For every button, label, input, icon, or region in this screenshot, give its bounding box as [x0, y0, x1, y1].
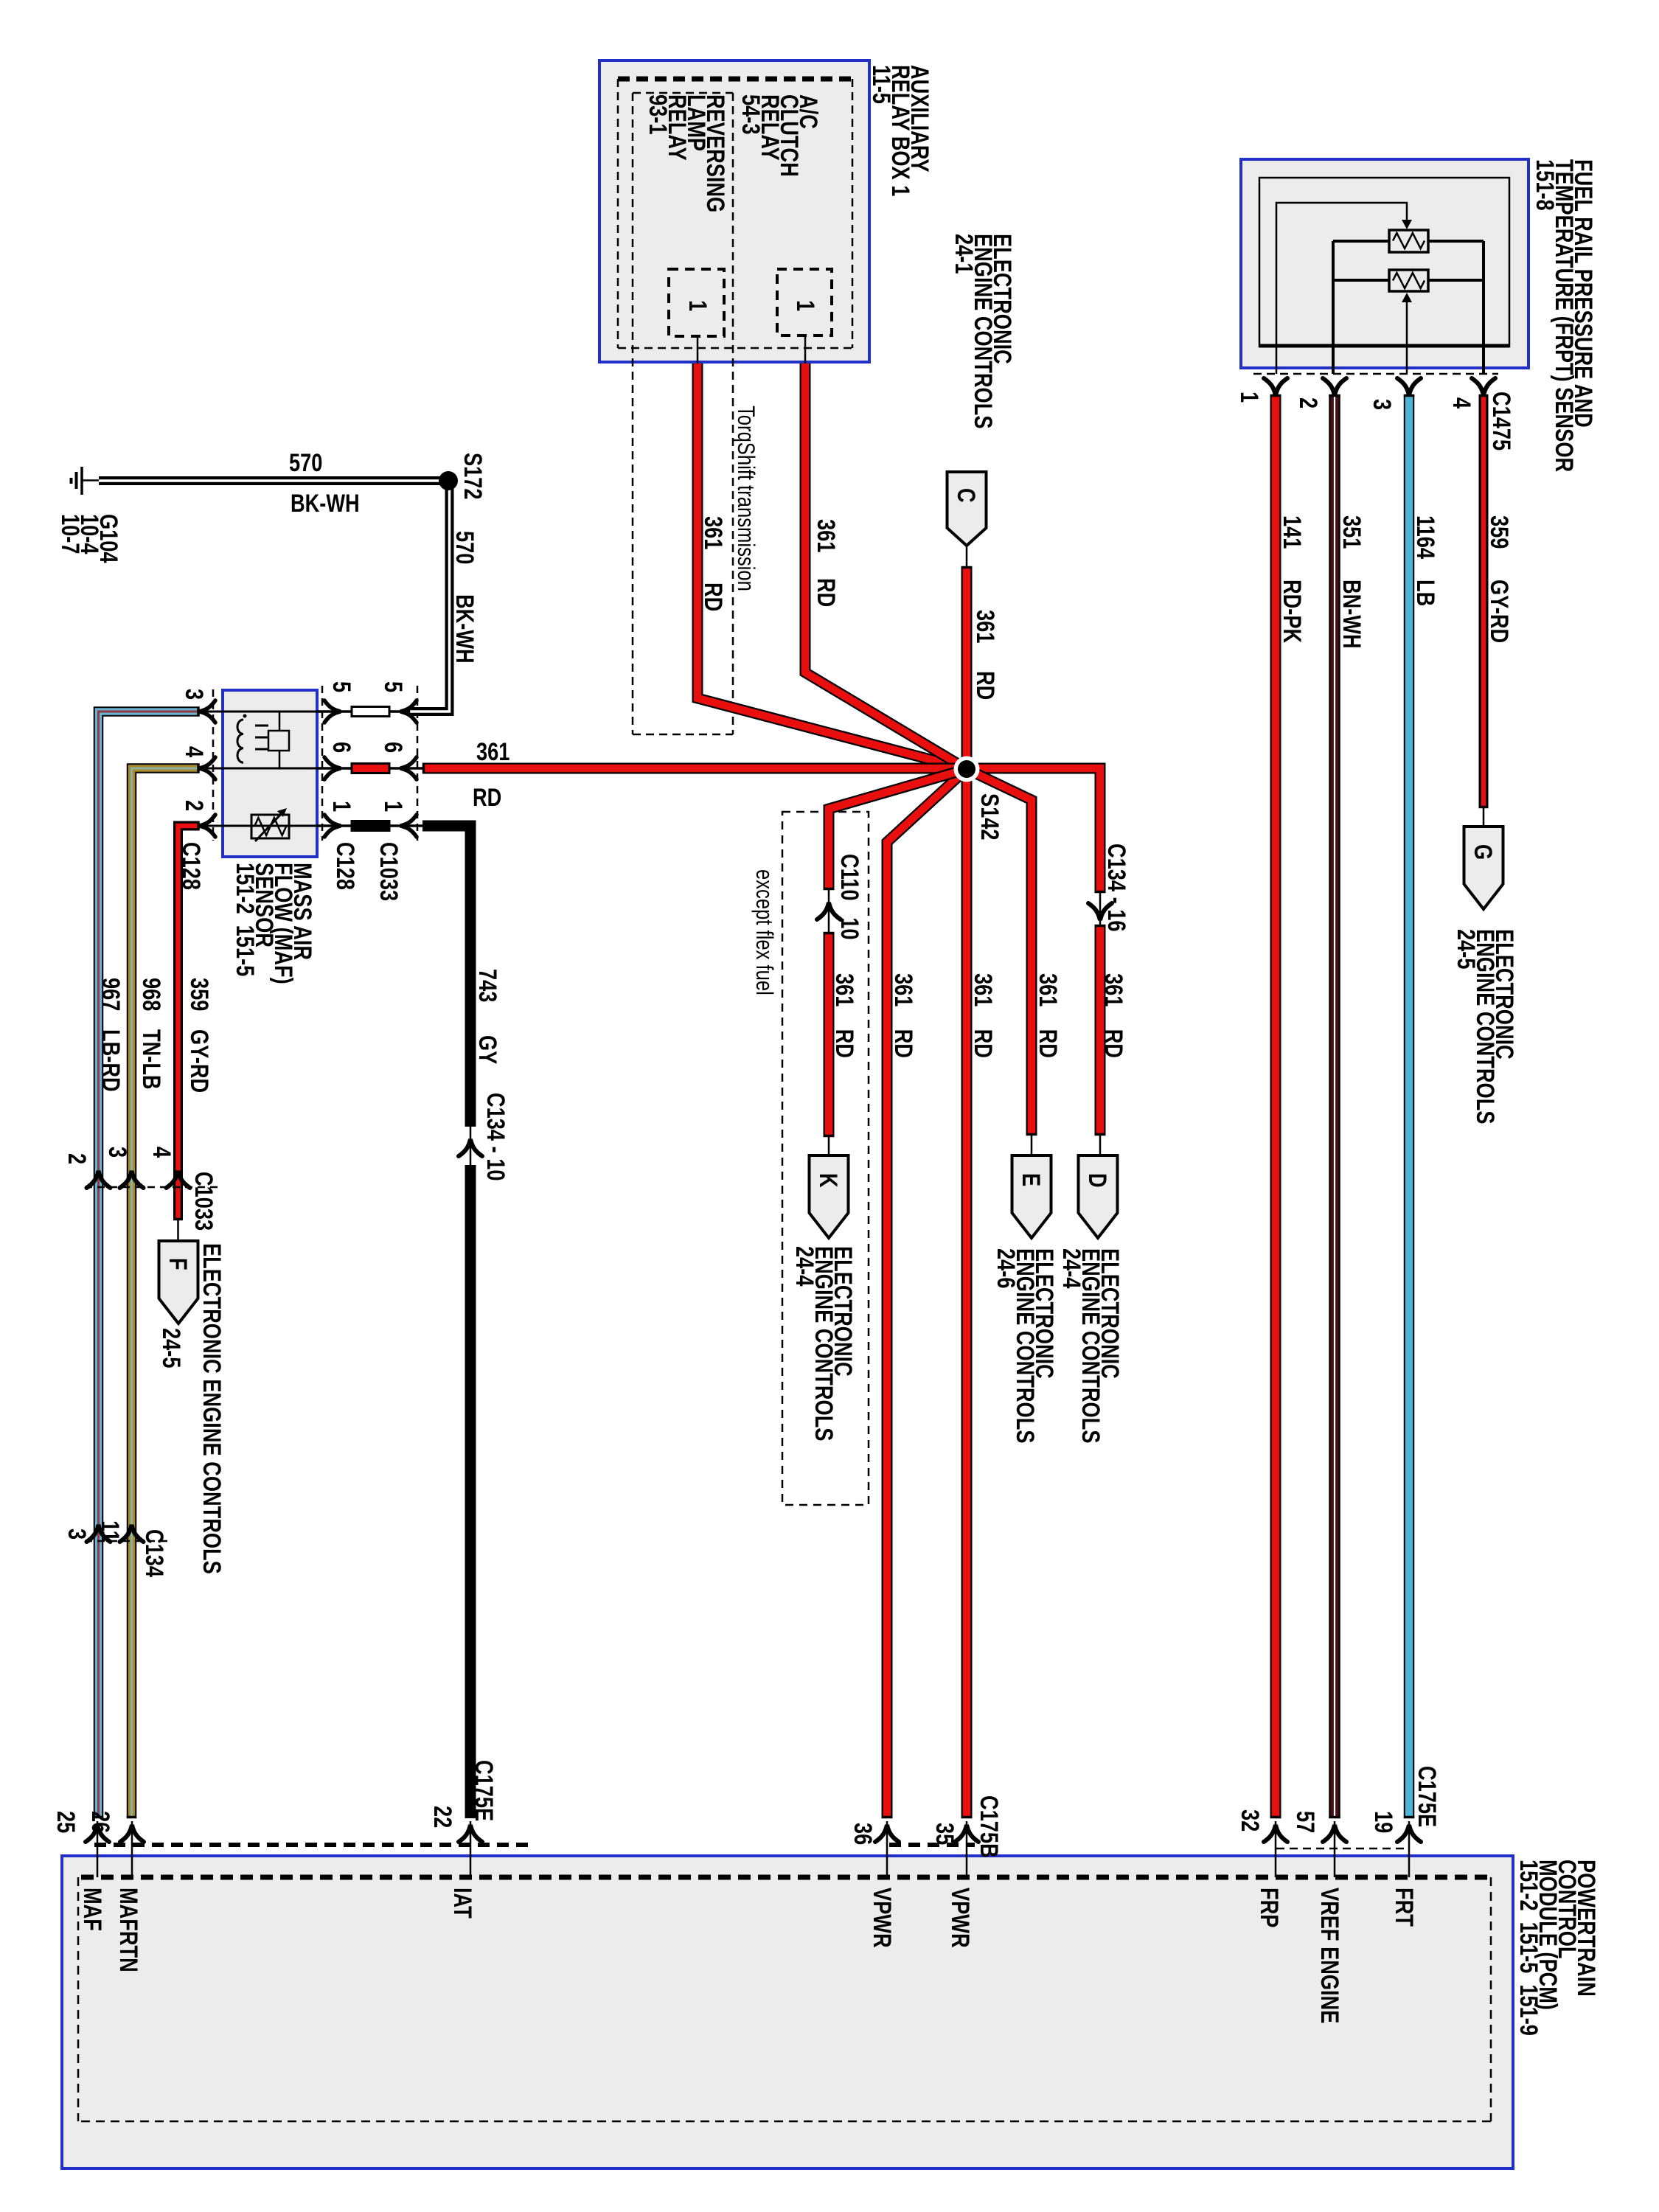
label pin 25 [56, 1811, 75, 1833]
arrow pin6 left [324, 757, 341, 779]
PCM pin stem VPWR36 [886, 1821, 888, 1877]
PCM pin stem IAT [470, 1821, 472, 1877]
label BN-WH [1342, 580, 1361, 649]
label FRP pin [1259, 1888, 1279, 1927]
reversing lamp relay dashed right / TorqShift box right [732, 93, 734, 734]
PCM box [62, 1856, 1513, 2168]
label 361 RD wire 35 [973, 973, 992, 1058]
PCM pin stem VREF [1334, 1821, 1336, 1877]
label MAFRTN pin [119, 1888, 138, 1972]
label C134 - 16 [1107, 844, 1126, 931]
wire 141 RD-PK [1270, 394, 1281, 1818]
PCM inner dashed bottom [81, 2121, 1491, 2123]
label BK-WH vertical [455, 594, 474, 664]
label 361 RD wire D [1104, 973, 1123, 1058]
MAF core bars [255, 725, 268, 727]
connector G pentagon [1464, 827, 1503, 909]
connector D pentagon [1079, 1155, 1118, 1238]
except flex fuel dashed box [782, 812, 869, 1505]
connector C128 right dashed line [321, 686, 324, 841]
connector F pentagon [159, 1241, 198, 1324]
splice S142 [954, 757, 980, 782]
label pin 4 C1475 [1452, 397, 1471, 408]
wire 1164 LB [1404, 394, 1415, 1818]
label 361 wire A [703, 516, 723, 549]
label FRT pin [1394, 1888, 1413, 1927]
label RD-PK [1282, 580, 1301, 643]
label MASS AIR FLOW sensor [235, 863, 312, 984]
label pin 35 [935, 1823, 954, 1845]
label POWERTRAIN CONTROL MODULE [1519, 1860, 1596, 2036]
label GY [478, 1035, 497, 1064]
label C128 right [335, 842, 355, 890]
stem connector E [1031, 1135, 1033, 1157]
ground G104 [80, 467, 83, 495]
label EEC 24-4 under D [1062, 1248, 1119, 1443]
MAF variable resistor arrow [255, 812, 283, 841]
label LB-RD [101, 1029, 120, 1092]
arrow PCM pin MAF [86, 1825, 109, 1842]
label AUXILIARY RELAY BOX 1 11-5 [872, 65, 929, 196]
inline housing pin6 [352, 764, 389, 773]
label 1 ac clutch pin [796, 300, 815, 311]
label pin 5 left [332, 681, 351, 692]
label C110 10 [840, 854, 859, 939]
label EEC 24-6 under E [996, 1248, 1054, 1443]
wire end caps [1270, 394, 1281, 397]
label VPWR pin 36 [872, 1888, 891, 1948]
label ELECTRONIC ENGINE CONTROLS 24-1 [954, 234, 1012, 428]
stem connector G [1483, 808, 1485, 828]
arrow pin1 left [324, 815, 341, 837]
label pin 57 [1295, 1811, 1315, 1833]
wire pin4 internal [1482, 241, 1485, 374]
MAF variable resistor [251, 815, 289, 838]
label 361 RD wire E [1038, 973, 1057, 1058]
arrow PCM pin VPWR36 [875, 1825, 899, 1842]
label LB [1416, 580, 1435, 606]
label EEC under F [202, 1243, 221, 1574]
wire 361 RD from a/c clutch relay [805, 364, 967, 769]
arrow pin5 left [324, 700, 341, 723]
connector C128 left dashed line [212, 689, 215, 841]
wire pin3 internal [1406, 302, 1408, 374]
wire pin2 internal [1332, 241, 1335, 374]
label pin 3 C1475 [1372, 399, 1391, 410]
MAF hot-wire element link [279, 712, 281, 768]
PCM inner dashed right [1490, 1877, 1492, 2121]
connector C1033 dashed line [85, 1186, 223, 1189]
label C128 left [181, 842, 201, 890]
label 1164 [1416, 515, 1435, 559]
arrow pin5 into MAF [199, 700, 215, 723]
wire 359 GY-RD (MAF) [178, 826, 198, 1220]
label 24-5 under F [161, 1328, 181, 1368]
label pin 1 C1475 [1239, 392, 1259, 403]
label 570 horizontal [289, 449, 322, 478]
arrow PCM pin VREF [1323, 1825, 1346, 1842]
FRPT inner case rectangle [1259, 178, 1509, 347]
wire 968 TN-LB [132, 768, 198, 1818]
connector C175B dashed line segment [889, 1843, 975, 1847]
label RD wire C [975, 671, 995, 700]
label pin 2 MAF [184, 800, 204, 811]
arrow pin6 right [400, 757, 417, 779]
label TorqShift transmission [737, 406, 756, 591]
MAF internal line pin3 row [198, 711, 317, 713]
label GY-RD [189, 1029, 209, 1093]
wire 743 GY lower [465, 1165, 476, 1818]
label 351 [1342, 515, 1361, 549]
arrow 968 at C134 [120, 1525, 144, 1542]
label C134 - 10 [486, 1093, 505, 1180]
arrow PCM pin IAT [459, 1825, 482, 1842]
label C1033 right [379, 842, 398, 901]
label D connector letter [1088, 1173, 1107, 1188]
inline connector C134-10 stem [470, 1127, 472, 1165]
label 141 [1282, 515, 1301, 549]
wire 361 RD from connector C to PCM pin35 [961, 566, 973, 1818]
arrow pin1 C1475 [1264, 378, 1287, 395]
a/c clutch relay pin 1 box [777, 269, 832, 335]
label 361 horizontal [476, 738, 509, 767]
PCM inner dashed top thick [81, 1875, 1491, 1880]
relay box dashed top thick [618, 77, 852, 82]
label C1475 [1492, 392, 1511, 451]
label GY-RD [1489, 580, 1509, 643]
MAF sensor box [223, 690, 317, 857]
label IAT pin [453, 1888, 472, 1919]
label E connector letter [1021, 1173, 1040, 1186]
stem connector C [966, 543, 968, 568]
resistor R-pressure [1389, 230, 1428, 252]
label MAF pin [83, 1888, 102, 1931]
connector C175E dashed line left segment [94, 1843, 528, 1847]
PCM pin stem FRT [1408, 1821, 1411, 1877]
wire 743 GY upper [422, 826, 470, 1127]
stem connector K [828, 1137, 830, 1157]
label 361 RD wire K [835, 973, 854, 1058]
connector C1033 right dashed line [417, 686, 419, 841]
label REVERSING LAMP RELAY 93-1 [648, 94, 725, 212]
label pin 1 right [383, 801, 403, 812]
arrow 359 at C1033 [167, 1171, 190, 1188]
TorqShift transmission dashed bottom [633, 734, 733, 736]
label RD horizontal [473, 784, 501, 813]
stem a/c clutch relay pin [804, 335, 807, 364]
label pin 1 left [332, 801, 351, 812]
label pin 2 C1475 [1298, 397, 1318, 408]
label pin 3 C134 [67, 1528, 86, 1540]
arrow pin3 C1475 [1397, 378, 1421, 395]
wire 351 BN-WH [1329, 394, 1340, 1818]
inline connector C134-16 stem [1099, 893, 1102, 925]
inline housing pin5 [352, 707, 389, 717]
wire 361 RD branch to connector E [967, 769, 1032, 1135]
label pin 3 MAF [184, 689, 204, 700]
label pin 11 C134 [100, 1520, 119, 1542]
wire 361 RD branch to PCM pin36 [887, 769, 967, 1818]
label pin 36 [853, 1823, 872, 1845]
connector C175E dashed line right segment [1276, 1848, 1409, 1850]
label 359 [189, 978, 209, 1011]
splice S172 [439, 471, 458, 490]
label pin 6 left [332, 742, 351, 753]
relay box dashed left [617, 79, 619, 348]
label A/C CLUTCH RELAY 54-3 [741, 94, 818, 177]
connector C pentagon [947, 472, 987, 546]
label except flex fuel [755, 869, 774, 995]
label C175E at IAT [474, 1760, 493, 1821]
label pin 5 right [383, 681, 403, 692]
label RD wire A [703, 582, 723, 611]
resistor leads [1333, 240, 1389, 243]
arrow 968 at C1033 [120, 1171, 144, 1188]
label EEC 24-4 under K [795, 1246, 852, 1441]
arrow pin4 C1475 [1472, 378, 1495, 395]
label VPWR pin 35 [950, 1888, 970, 1948]
wire 967 LB-RD [99, 712, 198, 1818]
label EEC 24-5 under G [1456, 929, 1514, 1124]
inline housing pin1 [352, 821, 389, 831]
label 570 vertical [455, 531, 474, 564]
relay box dashed bottom [618, 347, 852, 349]
wire 359 GY-RD (FRPT) [1479, 394, 1489, 808]
arrow into temperature resistor [1402, 293, 1412, 302]
PCM pin stem MAFRTN [131, 1821, 133, 1877]
MAF internal line pin4 row [198, 768, 317, 770]
label 361 RD wire 36 [894, 973, 913, 1058]
arrow 967 at C134 [87, 1525, 111, 1542]
label 359 [1489, 515, 1509, 549]
label pin 32 [1240, 1809, 1259, 1832]
label C134 [145, 1529, 164, 1577]
wire 570 BK-WH [99, 481, 450, 712]
arrow C110-10 [817, 902, 841, 919]
stem reversing lamp relay pin [697, 336, 699, 364]
arrow pin2 into MAF [199, 815, 215, 837]
label pin 3 C1033 [108, 1147, 127, 1158]
arrow PCM pin MAFRTN [120, 1825, 144, 1842]
label S142 [980, 793, 999, 841]
reversing lamp relay pin 1 box [669, 269, 724, 336]
connector C134 dashed line [85, 1540, 168, 1543]
arrow C134-16 [1088, 903, 1112, 920]
label pin 6 right [383, 742, 403, 753]
relay box dashed right [852, 79, 854, 348]
wire 361 RD branch to connector K upper [829, 769, 967, 890]
connector E pentagon [1012, 1155, 1051, 1238]
MAF hot-wire element box [268, 731, 289, 751]
FRPT case bottom thick line [1259, 344, 1509, 348]
label 968 [142, 978, 161, 1011]
label FUEL RAIL PRESSURE sensor [1535, 159, 1593, 472]
label 967 [101, 978, 120, 1011]
wire 361 RD main horizontal [422, 768, 1100, 893]
arrow pin3 into MAF [199, 757, 215, 779]
PCM inner dashed left [77, 1877, 80, 2121]
PCM pin stem MAF [97, 1821, 99, 1877]
reversing lamp relay dashed left / TorqShift box left [632, 93, 634, 734]
label F connector letter [168, 1258, 187, 1270]
label K connector letter [818, 1173, 838, 1188]
FRPT sensor box [1241, 159, 1528, 368]
stem connector D [1099, 1135, 1102, 1157]
arrow into pressure resistor [1402, 220, 1412, 229]
label 1 reversing pin [688, 300, 707, 311]
PCM pin stem VPWR35 [966, 1821, 968, 1877]
label TN-LB [142, 1029, 161, 1090]
label 361 wire C [975, 610, 995, 643]
label pin 4 MAF [184, 746, 204, 757]
arrow pin1 right [400, 815, 417, 837]
label G connector letter [1473, 844, 1492, 860]
label BK-WH horizontal [291, 490, 360, 518]
wire 361 RD to connector D [1095, 925, 1106, 1135]
resistor R-temperature [1389, 270, 1428, 291]
label RD wire B [816, 578, 835, 607]
arrow PCM pin VPWR35 [955, 1825, 978, 1842]
wire 361 RD from reversing lamp relay [698, 364, 967, 769]
label G104 10-4 10-7 [60, 514, 118, 563]
label pin 22 [433, 1806, 452, 1828]
connector C1475 dashed line [1253, 373, 1498, 375]
arrow BK-WH into C1033 [400, 700, 417, 723]
MAF internal line pin2 row [198, 825, 317, 827]
wire pin1 internal [1276, 203, 1407, 374]
label pin 2 C1033 [67, 1153, 86, 1164]
PCM pin stem FRP [1275, 1821, 1277, 1877]
arrow PCM pin FRP [1264, 1825, 1287, 1842]
connector K pentagon [810, 1155, 849, 1238]
arrow 967 at C1033 [87, 1171, 111, 1188]
arrow C134-10 [459, 1139, 482, 1156]
label C175E at FRT [1417, 1766, 1436, 1827]
label VREF ENGINE pin [1320, 1888, 1339, 2023]
label C1033 [194, 1172, 213, 1231]
reversing lamp relay dashed top [633, 92, 733, 94]
label C175B [979, 1795, 998, 1858]
auxiliary relay box 1 [599, 60, 869, 362]
label 743 [478, 969, 497, 1002]
label S172 [463, 453, 482, 500]
inline connector C110-10 stem [828, 890, 830, 932]
label pin 19 [1374, 1811, 1393, 1833]
label C connector letter [956, 488, 975, 503]
label pin 26 [91, 1811, 110, 1833]
arrow pin2 C1475 [1323, 378, 1346, 395]
wire 361 RD branch to connector K lower [824, 932, 835, 1137]
arrow PCM pin FRT [1397, 1825, 1421, 1842]
label pin 4 C1033 [152, 1147, 171, 1158]
stem to connector F [177, 1220, 179, 1242]
MAF sensing coil [237, 720, 243, 762]
label 361 wire B [816, 519, 835, 552]
